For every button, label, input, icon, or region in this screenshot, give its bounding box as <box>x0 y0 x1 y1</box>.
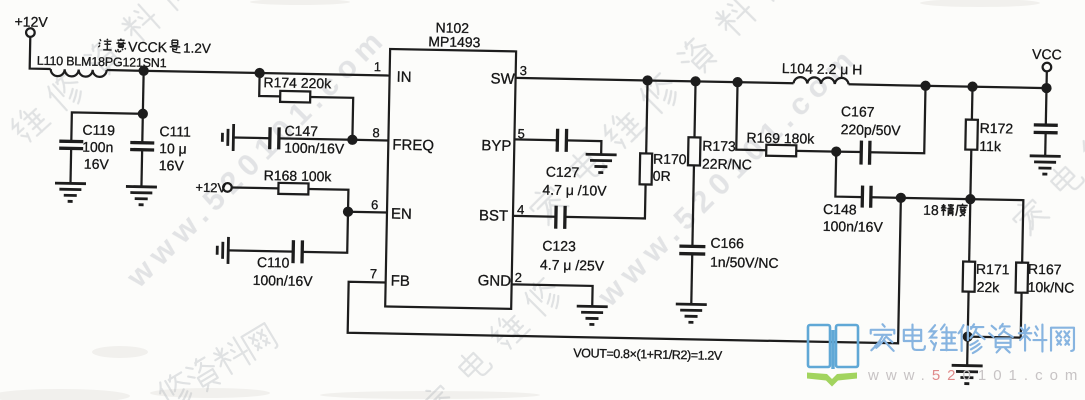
node rail-R171 <box>966 195 974 203</box>
svg-text:FB: FB <box>391 273 410 290</box>
svg-text:C147: C147 <box>284 122 318 139</box>
svg-text:16V: 16V <box>84 156 110 172</box>
node B divider tap <box>897 194 905 202</box>
inductor L104 <box>782 60 863 85</box>
svg-text:VOUT=0.8×(1+R1/R2)=1.2V: VOUT=0.8×(1+R1/R2)=1.2V <box>573 346 723 363</box>
node J1 <box>140 67 148 75</box>
wire SW rail <box>516 78 794 83</box>
svg-text:22k: 22k <box>977 279 1001 295</box>
svg-text:BYP: BYP <box>481 137 511 155</box>
svg-text:C148: C148 <box>823 201 857 218</box>
svg-text:220p/50V: 220p/50V <box>841 121 902 138</box>
logo text 家电维修资料网 <box>871 324 1074 353</box>
capacitor C110 <box>228 209 348 289</box>
svg-text:R168 100k: R168 100k <box>264 167 333 184</box>
wire J1 down <box>142 71 145 114</box>
node SW-R173 <box>691 77 699 85</box>
capacitor C147 <box>233 122 353 157</box>
svg-text:7: 7 <box>370 266 378 281</box>
svg-text:1.2V: 1.2V <box>183 41 211 57</box>
wire L110 to IC pin1 <box>107 70 390 75</box>
wire +12V to L110 <box>30 37 52 69</box>
pin 5 BYP <box>481 125 525 155</box>
resistor R168 <box>232 166 349 211</box>
svg-text:VCC: VCC <box>1032 46 1062 63</box>
svg-text:MP1493: MP1493 <box>428 33 481 50</box>
svg-text:C119: C119 <box>82 122 115 139</box>
svg-text:L104 2.2 μ H: L104 2.2 μ H <box>782 60 863 78</box>
chassis ground for C147 <box>222 124 234 151</box>
svg-text:C127: C127 <box>546 164 580 181</box>
resistor R173 <box>686 81 753 247</box>
op-amp U1 : IC N102 MP1493 body <box>385 19 517 309</box>
wire to C119 <box>71 112 143 142</box>
svg-text:10k/NC: 10k/NC <box>1028 279 1075 296</box>
ground under C119 <box>55 183 86 202</box>
svg-text:100n/16V: 100n/16V <box>823 218 884 235</box>
svg-text:R171: R171 <box>976 261 1010 278</box>
inductor L110 <box>37 54 167 78</box>
wire to divider ground <box>966 337 969 366</box>
label 18精度 <box>923 202 968 219</box>
node ground junction <box>964 333 972 341</box>
svg-text:R174 220k: R174 220k <box>263 74 332 91</box>
wire L104 to VCC <box>849 84 1047 88</box>
svg-text:1: 1 <box>374 59 382 74</box>
capacitor C123 <box>512 182 646 275</box>
pin 4 BST <box>479 201 525 225</box>
svg-text:SW: SW <box>490 70 515 87</box>
resistor R170 <box>640 80 689 185</box>
svg-text:6: 6 <box>371 197 379 212</box>
resistor R174 <box>258 73 353 140</box>
svg-text:4: 4 <box>517 202 525 217</box>
resistor R169 <box>736 82 837 157</box>
pin 7 FB <box>370 266 411 290</box>
svg-text:100n: 100n <box>82 139 113 156</box>
svg-text:R167: R167 <box>1028 261 1062 278</box>
logo book icon <box>808 325 858 369</box>
wire EN junction to pin 6 <box>348 211 387 214</box>
svg-text:18: 18 <box>923 202 939 218</box>
wire divider rail <box>900 198 1024 263</box>
wire FREQ junction to pin 8 <box>352 139 388 142</box>
capacitor C119 <box>58 121 115 184</box>
resistor R172 <box>964 87 1014 200</box>
svg-text:GND: GND <box>478 272 512 290</box>
svg-text:www.520101.com: www.520101.com <box>867 367 1084 384</box>
svg-text:FREQ: FREQ <box>392 137 434 155</box>
svg-text:+12V: +12V <box>195 180 226 196</box>
svg-text:R172: R172 <box>980 120 1014 137</box>
svg-text:C123: C123 <box>542 237 576 254</box>
svg-text:EN: EN <box>391 206 412 223</box>
svg-text:R173: R173 <box>702 138 736 155</box>
capacitor C148 <box>823 151 902 235</box>
ground for GND pin <box>576 306 607 325</box>
pin 2 GND <box>478 269 523 290</box>
chassis ground for C110 <box>217 237 229 264</box>
capacitor output VCC <box>1033 88 1058 156</box>
svg-text:C166: C166 <box>710 235 744 252</box>
svg-text:C111: C111 <box>159 123 191 140</box>
node SW-C167 <box>921 82 929 90</box>
node VCC junction <box>1042 84 1050 92</box>
svg-text:2: 2 <box>515 270 523 285</box>
svg-text:0R: 0R <box>653 168 671 184</box>
svg-text:R170: R170 <box>653 151 687 168</box>
svg-text:100n/16V: 100n/16V <box>253 272 314 289</box>
ground for C166 <box>675 304 706 323</box>
svg-text:C167: C167 <box>841 103 875 120</box>
note 注意VCCK是1.2V <box>98 38 211 56</box>
svg-text:10 μ: 10 μ <box>159 140 187 157</box>
svg-text:R169 180k: R169 180k <box>746 129 815 146</box>
node VCC-R172 <box>968 83 976 91</box>
capacitor C111 <box>129 114 191 188</box>
svg-text:4.7 μ /25V: 4.7 μ /25V <box>540 256 605 273</box>
svg-text:3: 3 <box>520 63 528 78</box>
wire divider bottoms <box>968 337 1021 338</box>
svg-text:8: 8 <box>372 125 380 140</box>
svg-text:VCCK: VCCK <box>128 38 168 55</box>
pin 8 FREQ <box>372 125 434 154</box>
svg-text:16V: 16V <box>159 157 185 173</box>
pin 3 SW <box>490 62 527 88</box>
node EN junction <box>344 208 352 216</box>
ground divider <box>951 365 982 384</box>
ground for C127 <box>585 154 616 173</box>
node SW-R169 <box>733 78 741 86</box>
svg-text:+12V: +12V <box>14 13 48 30</box>
svg-text:BST: BST <box>479 207 509 225</box>
svg-text:4.7 μ /10V: 4.7 μ /10V <box>542 181 607 198</box>
logo green band <box>807 373 857 387</box>
capacitor C167 <box>836 84 926 166</box>
node J2 <box>139 110 147 118</box>
VCC terminal <box>1032 46 1062 89</box>
ground under C111 <box>126 186 157 205</box>
node FREQ junction <box>348 136 356 144</box>
node A R169/C167/C148 <box>832 148 840 156</box>
svg-text:11k: 11k <box>979 138 1002 154</box>
svg-text:22R/NC: 22R/NC <box>702 156 752 173</box>
+12V enable terminal <box>195 180 232 196</box>
pin 6 EN <box>371 197 412 223</box>
resistor R167 <box>1015 261 1075 339</box>
resistor R171 <box>962 199 1011 337</box>
ground for output capacitor <box>1029 156 1060 175</box>
node R174 tap <box>256 69 264 77</box>
svg-text:IN: IN <box>396 69 411 86</box>
node SW-R170 <box>643 76 651 84</box>
wire FB pin to bottom feedback rail <box>348 187 901 343</box>
svg-text:C110: C110 <box>257 254 290 271</box>
capacitor C166 <box>678 234 779 306</box>
wire GND pin to ground <box>511 284 592 306</box>
+12V input terminal <box>14 13 48 37</box>
svg-text:1n/50V/NC: 1n/50V/NC <box>710 254 779 271</box>
svg-text:100n/16V: 100n/16V <box>284 139 345 156</box>
pin 1 IN <box>373 59 411 86</box>
capacitor C127 <box>513 128 608 199</box>
